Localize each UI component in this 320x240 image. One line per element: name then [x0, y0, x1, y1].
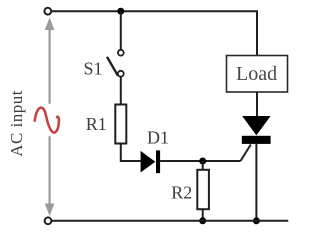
svg-text:R2: R2 — [171, 183, 192, 203]
node junction R2 top — [199, 158, 206, 165]
node junction bottom right — [253, 217, 260, 224]
terminal top-left — [44, 8, 51, 15]
switch S1 — [107, 50, 124, 77]
wire switch to R1 — [120, 77, 122, 105]
svg-text:AC input: AC input — [7, 90, 26, 157]
node junction R2 bottom — [199, 217, 206, 224]
svg-text:S1: S1 — [84, 58, 103, 78]
wire top rail — [48, 11, 257, 55]
wire SCR to bottom rail — [255, 144, 257, 221]
resistor R2 — [197, 170, 209, 209]
load box — [227, 56, 288, 93]
svg-text:D1: D1 — [147, 128, 169, 148]
wire junction to R2 — [202, 161, 204, 170]
wire D1 to gate kink — [160, 160, 241, 162]
wire R2 to bottom rail — [202, 209, 204, 221]
svg-text:Load: Load — [236, 63, 277, 85]
svg-text:R1: R1 — [86, 114, 107, 134]
wire bottom rail — [48, 220, 288, 222]
terminal bottom-left — [45, 217, 52, 224]
wire gate angled segment — [241, 145, 251, 162]
wire junction to switch — [120, 11, 122, 50]
wire load to SCR — [256, 92, 258, 117]
thyristor SCR cathode bar — [242, 136, 271, 144]
diode D1 — [141, 150, 161, 173]
resistor R1 — [115, 105, 126, 144]
wire R1 to D1 — [121, 144, 141, 162]
node junction top (switch branch) — [117, 8, 124, 15]
AC sine symbol — [35, 108, 59, 133]
AC input arrow (double-headed, gray) — [45, 18, 55, 217]
thyristor SCR anode triangle — [242, 116, 270, 135]
